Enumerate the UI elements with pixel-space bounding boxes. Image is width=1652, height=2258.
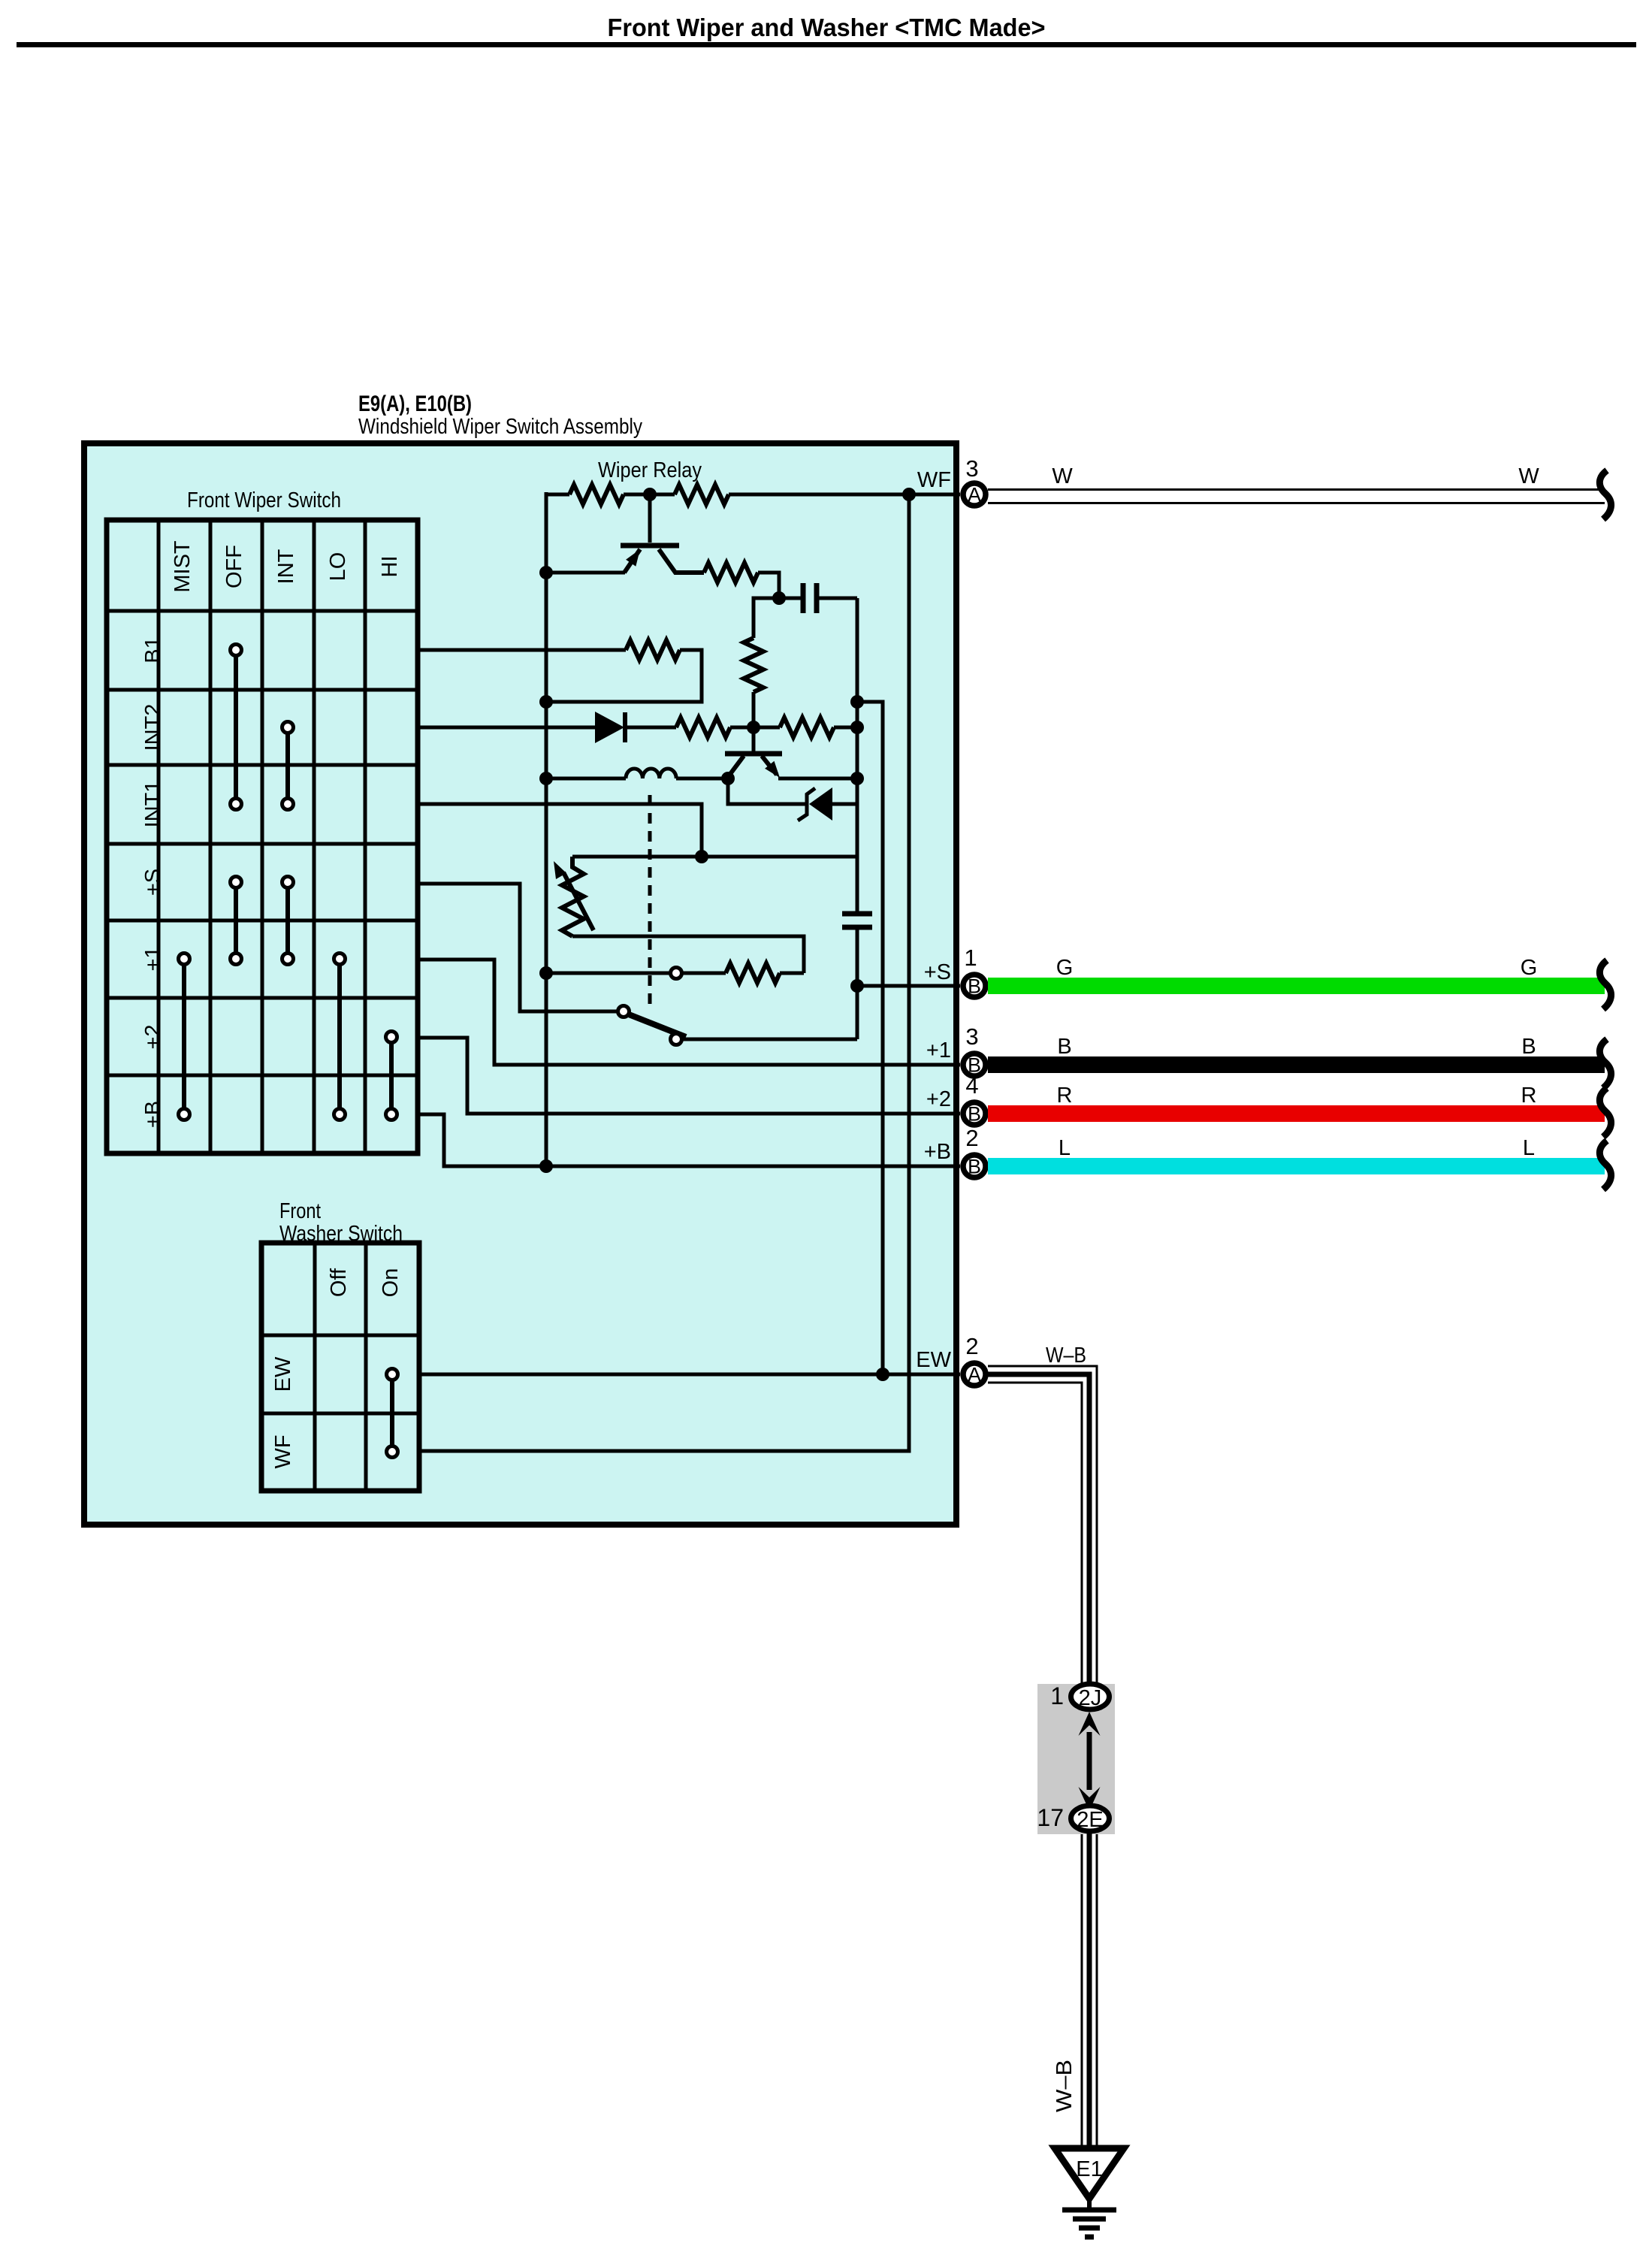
wire: VR1 bottom to R8 line [572,936,804,973]
wire: INT1 row to cam node [418,804,702,857]
wire: R8 to VR1 corner [780,972,804,975]
wire: +2 row to pin [418,1038,960,1114]
mechanical link (dashed) [648,795,652,1005]
svg-text:1: 1 [964,945,977,971]
svg-text:+2: +2 [926,1087,951,1111]
svg-text:B: B [1521,1035,1536,1059]
variable resistor VR1 [554,857,593,936]
ground E1 [1055,2148,1124,2237]
resistor R7 [780,718,834,737]
svg-text:LO: LO [326,552,350,582]
wire: +S row stub from switch [418,884,618,1011]
svg-text:EW: EW [271,1356,295,1392]
wire: B1 row loop [418,648,626,652]
svg-text:4: 4 [965,1072,978,1099]
svg-text:W–B: W–B [1046,1344,1086,1368]
svg-text:Windshield Wiper Switch Assemb: Windshield Wiper Switch Assembly [358,415,642,439]
svg-text:OFF: OFF [222,545,246,588]
wire: contact to R8 [682,972,726,975]
svg-text:G: G [1056,956,1074,980]
wire: EW row line [419,1373,960,1377]
wire L (light blue) from +B [988,1158,1605,1174]
title rule [17,42,1636,47]
svg-text:MIST: MIST [171,540,195,593]
svg-text:INT2: INT2 [141,704,165,751]
node: cam resistor line / INT1 [695,850,708,863]
pin EW (A-2) [963,1363,986,1386]
svg-text:WF: WF [917,468,951,492]
contact: arm end [671,1034,682,1045]
pin WF (A-3) [963,483,986,506]
wire B (black) from +1 [988,1056,1605,1073]
svg-text:W: W [1518,464,1539,488]
svg-text:2E: 2E [1077,1808,1103,1832]
wire: D1 to R6 [624,726,676,730]
svg-text:INT: INT [274,549,298,584]
switch contact MIST: +1-+B [182,959,186,1114]
node: left rail / coil [539,772,553,785]
svg-text:E9(A), E10(B): E9(A), E10(B) [358,391,472,416]
svg-text:1: 1 [1050,1682,1064,1709]
svg-text:Front: Front [279,1199,321,1223]
wire: +B row to pin [418,1114,960,1166]
cut mark L [1599,1141,1611,1189]
wire R (red) from +2 [988,1105,1605,1122]
node: left rail / +S contact [539,966,553,980]
resistor R2 [675,485,729,504]
resistor R3 (Q1 collector) [704,563,758,582]
svg-text:B: B [968,1156,981,1178]
svg-text:+B: +B [924,1140,951,1164]
switch contact LO: +1-+B [337,959,342,1114]
svg-text:2: 2 [965,1125,978,1151]
node: right rail / Q2 emitter [850,772,864,785]
wire: base node to R7 [754,726,780,730]
resistor R8 [726,963,780,983]
svg-text:+B: +B [141,1101,165,1128]
wire: R7 to right rail [834,726,857,730]
transistor Q1 (PNP) [621,494,704,573]
switch contact OFF: +S-+1 [234,882,238,959]
node: left rail / +B line [539,1159,553,1173]
resistor R1 [569,485,624,504]
svg-text:W: W [1052,464,1073,488]
node: left rail / B1 loop [539,695,553,709]
svg-text:3: 3 [965,1023,978,1050]
node: right rail / R7 [850,721,864,734]
wire: INT2 row to diode [418,726,595,730]
svg-text:3: 3 [965,455,978,482]
wire: R4 bottom to INT2 node [752,692,756,727]
svg-text:B1: B1 [141,636,165,663]
cut mark W [1599,470,1611,519]
resistor R4 (vertical) [744,638,763,692]
svg-text:Off: Off [327,1268,351,1297]
junction internal link arrows [1079,1712,1101,1811]
wire W (white) from WF [988,488,1605,491]
component box: Windshield Wiper Switch Assembly E9(A), E10(B) [84,443,956,1525]
wire: right rail lower segment with capacitor C2 [856,804,859,911]
svg-text:17: 17 [1037,1804,1064,1831]
wire: WF vertical to washer WF row [419,494,909,1451]
svg-text:+1: +1 [141,946,165,971]
svg-text:+1: +1 [926,1038,951,1062]
node: +S output junction [850,979,864,993]
svg-text:A: A [968,484,981,506]
wire: B1 loop return to left rail [546,650,702,702]
svg-text:+2: +2 [141,1024,165,1049]
svg-text:B: B [1057,1035,1071,1059]
svg-text:On: On [379,1268,403,1298]
cut mark B [1599,1039,1611,1088]
svg-text:R: R [1521,1084,1537,1108]
inductor L1 (relay coil) [546,769,728,778]
wire: R6 to Q2 base node [730,726,754,730]
node: EW line / relay drop [876,1368,889,1381]
wire: +1 row to pin [418,960,960,1065]
pin +1 (B-3) [963,1053,986,1076]
capacitor C2 [842,911,872,917]
washer contact On: EW-WF [390,1374,394,1452]
svg-text:R: R [1057,1084,1073,1108]
cut mark R [1599,1088,1611,1137]
svg-text:A: A [968,1364,981,1386]
contact: relay points (fixed) [671,968,682,979]
switch arm (moving contact) [629,1014,686,1037]
svg-text:EW: EW [916,1348,951,1372]
svg-text:+S: +S [141,869,165,896]
capacitor C1 [779,583,857,613]
svg-text:G: G [1521,956,1538,980]
switch contact OFF: B1-INT1 [234,650,238,804]
transistor Q2 (NPN) [725,727,782,778]
wire: C1 to right vertical rail [856,598,859,804]
wire G (green) from +S [988,978,1605,994]
node: Q2 base node [747,721,760,734]
zener diode Z1 [728,778,857,821]
wire: R3 to C1 node [758,573,779,598]
cut mark G [1599,960,1611,1009]
pin +S (B-1) [963,975,986,997]
resistor R5 (B1 row) [626,640,680,660]
svg-text:2J: 2J [1079,1686,1102,1710]
wire: emitter line to right rail [778,777,857,781]
node: left rail / Q1 emitter [539,566,553,579]
svg-text:Front Wiper and Washer <TMC Ma: Front Wiper and Washer <TMC Made> [608,14,1046,41]
wire: +S output to pin [857,984,960,988]
node: C1 left node [772,591,786,605]
svg-text:2: 2 [965,1333,978,1359]
svg-text:L: L [1523,1136,1535,1160]
wire W-B from EW to junction 2J (white w/ black stripe) [988,1366,1097,2148]
contact: wiper arm pivot [618,1006,630,1017]
svg-text:HI: HI [378,556,402,578]
svg-text:WF: WF [271,1434,295,1468]
svg-text:B: B [968,1103,981,1126]
svg-text:B: B [968,975,981,998]
junction connector 2J (pin 1) [1071,1684,1110,1710]
resistor R6 [676,718,730,737]
node: top rail / Q1 collector junction [643,488,657,501]
svg-text:W–B: W–B [1053,2060,1077,2112]
pin +2 (B-4) [963,1102,986,1125]
svg-text:E1: E1 [1076,2157,1102,2181]
wire: arm line to right rail [682,1038,857,1041]
wire W-B from 2E to ground (stripe) [1087,1832,1092,2148]
wire: relay top rail segments [546,493,569,497]
switch contact INT: INT2-INT1 [285,727,290,804]
svg-text:L: L [1059,1136,1071,1160]
switch contact HI: +2-+B [389,1037,394,1114]
svg-text:Front Wiper Switch: Front Wiper Switch [187,488,341,512]
junction connector 2E (pin 17) [1071,1806,1110,1832]
switch contact INT: +S-+1 [285,882,290,959]
wire: branch to EW vertical [857,702,883,1374]
svg-text:+S: +S [924,960,951,984]
wire: R4 top link [754,598,779,638]
node: WF branch junction [902,488,916,501]
svg-text:Wiper Relay: Wiper Relay [598,458,702,482]
diode D1 [595,712,625,743]
wire: variable resistor top line [572,855,857,859]
svg-text:INT1: INT1 [141,781,165,828]
node: right rail branch to EW drop [850,695,864,709]
node: coil / Q2 collector [721,772,735,785]
wire: Q1 emitter to left rail [546,571,625,575]
wire: +S contact line [546,972,670,975]
junction block 2J/2E (gray) [1037,1684,1115,1834]
pin +B (B-2) [963,1155,986,1177]
wire: relay left vertical rail [545,492,548,1166]
